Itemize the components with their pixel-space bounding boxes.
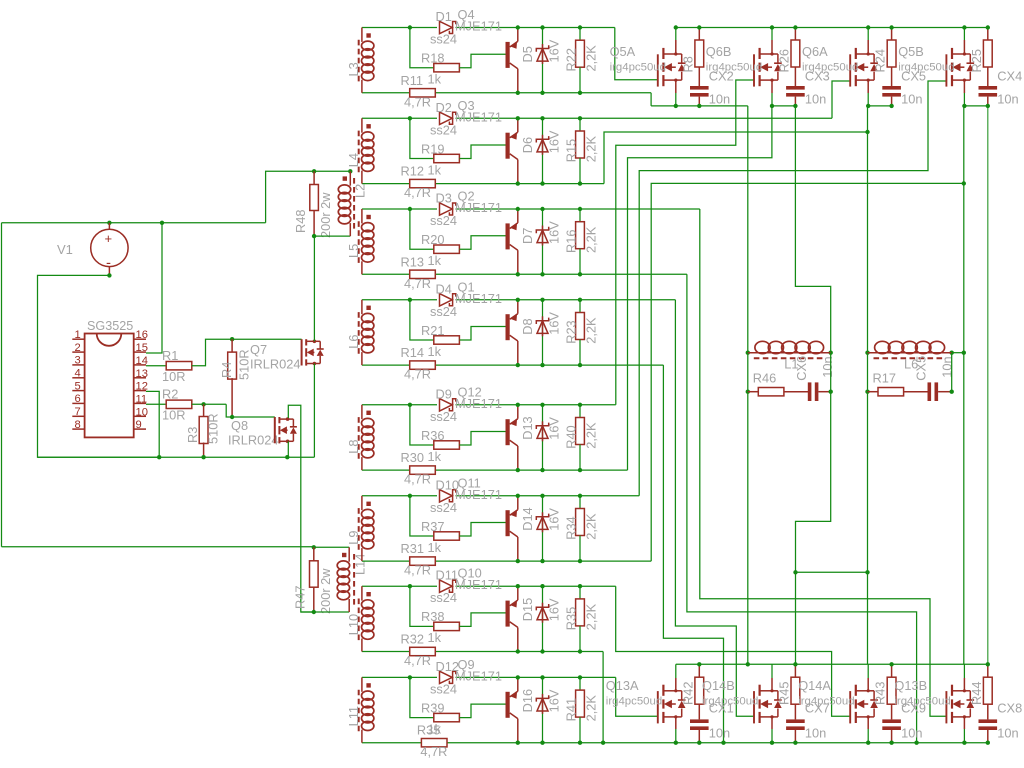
resistor R34 2,2K bbox=[579, 496, 581, 509]
IC pin 15 stub bbox=[134, 351, 146, 353]
svg-text:MJE171: MJE171 bbox=[455, 291, 502, 306]
svg-text:R32: R32 bbox=[401, 632, 424, 647]
resistor R2 bbox=[166, 400, 192, 408]
svg-text:7: 7 bbox=[75, 406, 81, 418]
capacitor CX7 10n bbox=[794, 704, 796, 719]
svg-text:L3: L3 bbox=[346, 62, 361, 76]
transistor Q12 MJE171 pnp bbox=[506, 419, 510, 445]
capacitor CX1 10n bbox=[698, 704, 700, 719]
svg-text:4,7R: 4,7R bbox=[404, 94, 431, 109]
polarity mark L5 bbox=[366, 215, 370, 219]
svg-text:Q6B: Q6B bbox=[706, 44, 732, 59]
wire V+ jog to transformer primary top bbox=[266, 171, 351, 223]
inductor L10 secondary winding bbox=[361, 586, 363, 600]
svg-text:2,2K: 2,2K bbox=[584, 603, 599, 630]
svg-text:Q5A: Q5A bbox=[610, 44, 636, 59]
svg-text:16V: 16V bbox=[547, 417, 562, 440]
svg-text:4,7R: 4,7R bbox=[420, 744, 447, 759]
resistor R38 1k bbox=[434, 622, 460, 630]
svg-text:5: 5 bbox=[75, 380, 81, 392]
core dashes L11 bbox=[358, 690, 360, 733]
resistor R26 bbox=[794, 28, 796, 41]
wire R37 to base bbox=[459, 523, 505, 537]
capacitor CX8 10n bbox=[987, 704, 989, 719]
svg-text:R19: R19 bbox=[421, 141, 444, 156]
svg-text:R15: R15 bbox=[564, 139, 579, 162]
core dashes primary L14 bbox=[353, 554, 355, 605]
svg-text:ss24: ss24 bbox=[430, 500, 457, 515]
node row3 return on rail bbox=[914, 741, 918, 745]
emitter segment Q6A bbox=[868, 105, 891, 107]
node emitter Q1 bbox=[516, 298, 520, 302]
IC pin 8 stub bbox=[72, 428, 84, 430]
svg-text:Q14B: Q14B bbox=[702, 678, 735, 693]
svg-text:16V: 16V bbox=[547, 39, 562, 62]
svg-text:R4: R4 bbox=[219, 362, 234, 378]
svg-text:CX8: CX8 bbox=[997, 701, 1022, 716]
resistor R18 1k bbox=[434, 64, 460, 72]
svg-text:2,2K: 2,2K bbox=[584, 226, 599, 253]
svg-text:D15: D15 bbox=[520, 598, 535, 621]
driver row 4 top wire bbox=[362, 299, 437, 301]
svg-text:MJE171: MJE171 bbox=[455, 396, 502, 411]
svg-text:R38: R38 bbox=[421, 609, 444, 624]
resistor R15 2,2K bbox=[579, 118, 581, 131]
capacitor CX5 10n bbox=[891, 67, 893, 86]
driver row 1 bottom wire bbox=[362, 92, 651, 94]
inductor L14 primary winding bbox=[348, 547, 350, 561]
svg-text:4: 4 bbox=[75, 368, 81, 380]
node R4 top bbox=[230, 337, 234, 341]
inductor L5 secondary winding bbox=[361, 209, 363, 223]
svg-text:R30: R30 bbox=[401, 450, 424, 465]
svg-text:1k: 1k bbox=[428, 253, 442, 268]
svg-text:R1: R1 bbox=[162, 348, 178, 363]
node pin12 ground bbox=[157, 455, 161, 459]
resistor R11 4,7R bbox=[410, 89, 436, 97]
node emitter Q9 bbox=[516, 675, 520, 679]
wire R18 to base bbox=[459, 54, 505, 67]
resistor R14 4,7R bbox=[410, 361, 436, 369]
schottky diode D1 ss24 bbox=[440, 21, 453, 33]
driver row 7 bottom wire bbox=[362, 651, 603, 653]
svg-text:R35: R35 bbox=[564, 607, 579, 630]
node collector Q11 bbox=[516, 559, 520, 563]
svg-text:D6: D6 bbox=[520, 137, 535, 153]
capacitor CX9 10n bbox=[891, 704, 893, 719]
node emitter Q11 bbox=[516, 494, 520, 498]
svg-text:D4: D4 bbox=[436, 281, 452, 296]
wire V1 minus to ground bus bbox=[38, 275, 160, 457]
wire row1 return to Q5A emitter rail bbox=[650, 93, 652, 106]
svg-text:D8: D8 bbox=[520, 318, 535, 334]
svg-text:2,2K: 2,2K bbox=[584, 422, 599, 449]
svg-text:10n: 10n bbox=[805, 726, 826, 741]
node cross link right bbox=[865, 570, 869, 574]
wire to resistor R20 bbox=[410, 209, 434, 249]
node emitter Q3 bbox=[516, 116, 520, 120]
wire R2 node to Q8 gate bbox=[226, 404, 275, 417]
zener diode D5 16V bbox=[542, 28, 544, 93]
node collector Q3 bbox=[516, 181, 520, 185]
wire row5 return riser to Q6B emitter bbox=[628, 106, 772, 470]
node collector Q2 bbox=[516, 272, 520, 276]
resistor R4 bbox=[231, 339, 233, 353]
svg-text:2,2K: 2,2K bbox=[584, 136, 599, 163]
svg-text:L6: L6 bbox=[346, 335, 361, 349]
wire V1+ top bus bbox=[2, 222, 266, 224]
wire row7 top to Q14A gate bbox=[616, 586, 851, 716]
IC pin 10 stub bbox=[134, 415, 146, 417]
polarity mark L14 bbox=[342, 553, 346, 557]
wire R38 to base bbox=[459, 613, 505, 627]
schottky diode D3 ss24 bbox=[440, 203, 453, 215]
svg-text:R23: R23 bbox=[564, 320, 579, 343]
svg-text:IRLR024: IRLR024 bbox=[250, 357, 301, 372]
driver row 6 bottom wire bbox=[362, 560, 651, 562]
svg-text:MJE171: MJE171 bbox=[455, 577, 502, 592]
resistor R35 2,2K bbox=[579, 586, 581, 599]
wire R2 to node bbox=[192, 403, 226, 405]
wire Q6A emitter down bbox=[867, 80, 869, 93]
svg-text:L14: L14 bbox=[353, 554, 368, 575]
svg-text:R18: R18 bbox=[421, 51, 444, 66]
wire row2 return riser to Q6A emitter bbox=[604, 132, 868, 184]
zener diode D15 16V bbox=[542, 586, 544, 651]
resistor R45 bbox=[794, 664, 796, 677]
IGBT Q6B irg4pc50ud bbox=[753, 54, 755, 86]
resistor R3 bbox=[203, 404, 205, 417]
wire Q13B emitter to rail bbox=[963, 717, 965, 729]
wire Q7 drain up to primary bottom node bbox=[313, 236, 315, 341]
svg-text:200r 2w: 200r 2w bbox=[318, 192, 333, 238]
wire R21 to base bbox=[459, 327, 505, 341]
svg-text:R21: R21 bbox=[421, 323, 444, 338]
node R48 top bbox=[312, 169, 316, 173]
svg-text:irg4pc50ud: irg4pc50ud bbox=[898, 62, 954, 74]
svg-text:R16: R16 bbox=[564, 230, 579, 253]
svg-text:L11: L11 bbox=[346, 706, 361, 726]
svg-text:1k: 1k bbox=[428, 449, 442, 464]
svg-text:10n: 10n bbox=[997, 726, 1018, 741]
wire CX4 to CX8 right edge link bbox=[987, 106, 989, 664]
svg-text:irg4pc50ud: irg4pc50ud bbox=[702, 696, 758, 708]
node cross link left bbox=[793, 570, 797, 574]
svg-text:Q7: Q7 bbox=[250, 342, 267, 357]
IGBT Q13B irg4pc50ud bbox=[945, 691, 947, 723]
wire Q5B emitter down to Q13B collector bbox=[963, 106, 965, 664]
svg-text:CX5: CX5 bbox=[914, 356, 929, 381]
svg-text:ss24: ss24 bbox=[430, 409, 457, 424]
svg-text:4,7R: 4,7R bbox=[404, 653, 431, 668]
wire Q8 drain to primary L14 bottom bbox=[288, 405, 314, 612]
IGBT Q5A irg4pc50ud bbox=[657, 54, 659, 86]
resistor R13 4,7R bbox=[410, 270, 436, 278]
collector bus bottom cells bbox=[676, 663, 988, 665]
svg-text:ss24: ss24 bbox=[430, 122, 457, 137]
resistor R8 bbox=[698, 28, 700, 41]
node collector Q12 bbox=[516, 468, 520, 472]
driver row 3 top wire bbox=[362, 208, 437, 210]
svg-text:Q6A: Q6A bbox=[802, 44, 828, 59]
resistor R24 bbox=[891, 28, 893, 41]
svg-text:16V: 16V bbox=[547, 508, 562, 531]
svg-text:L5: L5 bbox=[346, 244, 361, 258]
wire Q14B collector up bbox=[771, 664, 773, 678]
svg-text:+: + bbox=[105, 231, 113, 246]
IGBT Q14B irg4pc50ud bbox=[753, 691, 755, 723]
wire Q13B collector up bbox=[963, 664, 965, 678]
resistor R30 4,7R bbox=[410, 466, 436, 474]
inductor L6 right snubber bbox=[865, 351, 869, 355]
svg-text:irg4pc50ud: irg4pc50ud bbox=[610, 62, 666, 74]
svg-text:R47: R47 bbox=[293, 586, 308, 609]
svg-text:13: 13 bbox=[136, 368, 148, 380]
svg-text:irg4pc50ud: irg4pc50ud bbox=[802, 62, 858, 74]
emitter segment Q5A bbox=[651, 105, 748, 107]
resistor R19 1k bbox=[434, 154, 460, 162]
svg-text:16V: 16V bbox=[547, 312, 562, 335]
resistor R44 bbox=[987, 664, 989, 677]
svg-text:8: 8 bbox=[75, 419, 81, 431]
wire Q14A collector up bbox=[867, 664, 869, 678]
svg-text:2,2K: 2,2K bbox=[584, 45, 599, 72]
svg-text:irg4pc50ud: irg4pc50ud bbox=[894, 696, 950, 708]
node emitter Q4 bbox=[516, 25, 520, 29]
svg-text:1k: 1k bbox=[428, 344, 442, 359]
IC pin 6 stub bbox=[72, 402, 84, 404]
wire row6 top riser to Q5B gate bbox=[639, 81, 946, 496]
core dashes L9 bbox=[358, 508, 360, 551]
wire left edge V+ down bbox=[1, 223, 3, 547]
inductor L1 bbox=[746, 351, 750, 355]
svg-text:R43: R43 bbox=[873, 682, 888, 705]
node row6 return join bbox=[962, 181, 966, 185]
driver row 7 top wire bbox=[362, 585, 437, 587]
svg-text:4,7R: 4,7R bbox=[404, 472, 431, 487]
svg-text:R12: R12 bbox=[401, 164, 424, 179]
polarity mark L10 bbox=[366, 592, 370, 596]
wire Q6A collector to rail bbox=[867, 28, 869, 41]
resistor R41 2,2K bbox=[579, 677, 581, 690]
wire Q14B emitter to rail bbox=[771, 717, 773, 729]
driver row 8 top wire bbox=[362, 676, 437, 678]
transistor Q8 IRLR024 bbox=[274, 417, 276, 443]
IC pin 9 stub bbox=[134, 428, 146, 430]
wire to resistor R36 bbox=[410, 405, 434, 445]
transistor Q7 IRLR024 bbox=[301, 339, 303, 365]
svg-text:3: 3 bbox=[75, 355, 81, 367]
svg-text:Q13B: Q13B bbox=[894, 678, 927, 693]
wire row7 return to bottom rail bbox=[602, 652, 604, 743]
core dashes L3 bbox=[358, 40, 360, 83]
resistor R23 2,2K bbox=[579, 300, 581, 313]
wire R4 bottom to Q8 gate line bbox=[230, 415, 234, 419]
wire row4 top dive to Q14B gate bbox=[675, 300, 754, 716]
svg-text:L8: L8 bbox=[346, 440, 361, 454]
wire Q8 source to ground bus bbox=[287, 441, 289, 457]
wire Q5A emitter down bbox=[675, 80, 677, 93]
inductor L2 primary winding bbox=[349, 171, 351, 185]
wire Q14A emitter to rail bbox=[867, 717, 869, 729]
node row7 return on rail bbox=[601, 741, 605, 745]
svg-text:R39: R39 bbox=[421, 700, 444, 715]
wire pin 11 to R2 bbox=[146, 403, 166, 405]
driver row 6 top wire bbox=[362, 495, 437, 497]
IC pin 1 stub bbox=[72, 338, 84, 340]
zener diode D14 16V bbox=[542, 496, 544, 561]
polarity mark L9 bbox=[366, 502, 370, 506]
wire to resistor R38 bbox=[410, 586, 434, 626]
wire Q7 source down to ground bus bbox=[313, 364, 315, 458]
node row4 return on rail bbox=[721, 741, 725, 745]
svg-text:ss24: ss24 bbox=[430, 590, 457, 605]
schottky diode D11 ss24 bbox=[440, 580, 453, 592]
svg-text:2: 2 bbox=[75, 342, 81, 354]
svg-text:R40: R40 bbox=[564, 425, 579, 448]
core dashes L6 bbox=[358, 312, 360, 355]
svg-text:R41: R41 bbox=[564, 698, 579, 721]
IC pin 4 stub bbox=[72, 377, 84, 379]
svg-text:ss24: ss24 bbox=[430, 681, 457, 696]
svg-text:9: 9 bbox=[136, 419, 142, 431]
node emitter Q12 bbox=[516, 403, 520, 407]
top rail wire bbox=[676, 27, 988, 29]
wire row3 return dive to bottom rail bbox=[687, 274, 917, 742]
svg-text:1k: 1k bbox=[428, 630, 442, 645]
inductor L3 secondary winding bbox=[361, 28, 363, 42]
IC pin 13 stub bbox=[134, 377, 146, 379]
wire to resistor R39 bbox=[410, 677, 434, 717]
wire R1 to gate node Q7 bbox=[192, 339, 302, 366]
wire R20 to base bbox=[459, 236, 505, 250]
svg-text:R31: R31 bbox=[401, 541, 424, 556]
wire snubber right end down jog to Q14B collector bbox=[796, 392, 831, 665]
wire to L14 top bbox=[314, 546, 349, 548]
svg-text:MJE171: MJE171 bbox=[455, 19, 502, 34]
wire row5 top riser to Q6B gate bbox=[616, 80, 754, 405]
transistor Q4 MJE171 pnp bbox=[506, 42, 510, 68]
svg-text:ss24: ss24 bbox=[430, 32, 457, 47]
zener diode D8 16V bbox=[542, 300, 544, 365]
svg-text:R26: R26 bbox=[776, 49, 791, 72]
driver row 8 bottom wire bbox=[362, 742, 988, 744]
wire row1 gate feed to Q5A bbox=[615, 28, 658, 80]
svg-text:D16: D16 bbox=[520, 689, 535, 712]
inductor L4 secondary winding bbox=[361, 118, 363, 132]
node V1 minus bbox=[107, 273, 111, 277]
transistor Q3 MJE171 pnp bbox=[506, 133, 510, 159]
svg-text:16V: 16V bbox=[547, 130, 562, 153]
driver row 1 top wire bbox=[362, 27, 437, 29]
IC pin 2 stub bbox=[72, 351, 84, 353]
svg-text:R13: R13 bbox=[401, 254, 424, 269]
node collector Q4 bbox=[516, 91, 520, 95]
schottky diode D10 ss24 bbox=[440, 490, 453, 502]
svg-text:R14: R14 bbox=[401, 345, 424, 360]
node V1 plus bbox=[107, 221, 111, 225]
inductor L6 secondary winding bbox=[361, 300, 363, 314]
wire row4 return dive to bottom rail bbox=[663, 365, 723, 743]
svg-text:4,7R: 4,7R bbox=[404, 563, 431, 578]
svg-text:2,2K: 2,2K bbox=[584, 317, 599, 344]
node row2 return join bbox=[865, 130, 869, 134]
svg-text:MJE171: MJE171 bbox=[455, 109, 502, 124]
node R47 top bbox=[312, 545, 316, 549]
emitter segment Q5B bbox=[964, 105, 987, 107]
IC pin 3 stub bbox=[72, 364, 84, 366]
core dashes L5 bbox=[358, 221, 360, 264]
svg-text:-: - bbox=[106, 255, 111, 272]
wire pin 14 to R1 bbox=[146, 365, 166, 367]
svg-text:16V: 16V bbox=[547, 689, 562, 712]
wire pin 12 to ground bus bbox=[146, 391, 159, 457]
svg-text:MJE171: MJE171 bbox=[455, 200, 502, 215]
svg-text:CX4: CX4 bbox=[997, 69, 1022, 84]
svg-text:10n: 10n bbox=[997, 92, 1018, 107]
resistor R48 bbox=[313, 171, 315, 184]
svg-text:L10: L10 bbox=[346, 614, 361, 635]
resistor R22 2,2K bbox=[579, 28, 581, 41]
node Q8 source ground bbox=[285, 455, 289, 459]
resistor R36 1k bbox=[434, 441, 460, 449]
svg-text:R24: R24 bbox=[873, 49, 888, 72]
wire Q5A emitter rail down to collector bus bbox=[747, 106, 749, 664]
transistor Q1 MJE171 pnp bbox=[506, 314, 510, 340]
svg-text:1k: 1k bbox=[428, 540, 442, 555]
svg-text:16: 16 bbox=[136, 329, 148, 341]
zener diode D13 16V bbox=[542, 405, 544, 470]
schottky diode D9 ss24 bbox=[440, 399, 453, 411]
capacitor CX2 10n bbox=[698, 67, 700, 86]
wire Q6A emitter rail down to Q14A collector bbox=[867, 106, 869, 664]
IGBT Q5B irg4pc50ud bbox=[945, 54, 947, 86]
resistor R21 1k bbox=[434, 336, 460, 344]
svg-text:D5: D5 bbox=[520, 46, 535, 62]
node R2 R3 bbox=[201, 402, 205, 406]
resistor R47 bbox=[313, 547, 315, 561]
svg-text:10n: 10n bbox=[901, 726, 922, 741]
wire L14 bottom bbox=[301, 611, 349, 613]
transistor Q2 MJE171 pnp bbox=[506, 223, 510, 249]
resistor R1 bbox=[166, 362, 192, 370]
node collector Q9 bbox=[516, 741, 520, 745]
svg-text:R2: R2 bbox=[162, 387, 178, 402]
svg-text:IRLR024: IRLR024 bbox=[228, 433, 279, 448]
svg-text:10R: 10R bbox=[162, 369, 185, 384]
wire to resistor R18 bbox=[410, 28, 434, 68]
resistor R31 4,7R bbox=[410, 557, 436, 565]
capacitor CX3 10n bbox=[794, 67, 796, 86]
IC pin 5 stub bbox=[72, 390, 84, 392]
IC pin 12 stub bbox=[134, 390, 146, 392]
svg-text:ss24: ss24 bbox=[430, 213, 457, 228]
schottky diode D12 ss24 bbox=[440, 671, 453, 683]
svg-text:D3: D3 bbox=[436, 191, 452, 206]
resistor R12 4,7R bbox=[410, 179, 436, 187]
svg-text:10n: 10n bbox=[805, 92, 826, 107]
svg-text:1k: 1k bbox=[428, 72, 442, 87]
node collector Q1 bbox=[516, 363, 520, 367]
wire primary L2 bottom bbox=[314, 235, 350, 237]
driver row 5 bottom wire bbox=[362, 469, 628, 471]
svg-text:4,7R: 4,7R bbox=[404, 185, 431, 200]
polarity mark L6 bbox=[366, 306, 370, 310]
IC pin 16 stub bbox=[134, 338, 146, 340]
core dashes primary L2 bbox=[353, 178, 355, 229]
svg-text:R8: R8 bbox=[680, 56, 695, 72]
node collector bus LC join bbox=[746, 662, 750, 666]
